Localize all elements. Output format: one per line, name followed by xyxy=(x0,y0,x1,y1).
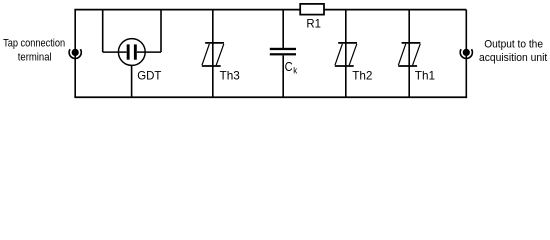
svg-text:Output to the: Output to the xyxy=(484,38,543,50)
resistor R1 xyxy=(300,4,324,15)
node tap terminal xyxy=(69,49,81,59)
wire GDT left vertical xyxy=(102,10,104,53)
svg-text:C: C xyxy=(285,59,293,74)
svg-text:Th3: Th3 xyxy=(220,68,241,82)
thyristor Th3 xyxy=(202,10,224,98)
thyristor Th2 xyxy=(335,10,357,98)
svg-text:Th2: Th2 xyxy=(352,68,373,82)
svg-text:Tap connection: Tap connection xyxy=(3,38,65,50)
GDT tube xyxy=(118,39,145,66)
wire GDT horizontal xyxy=(103,51,161,53)
svg-text:R1: R1 xyxy=(306,17,321,31)
svg-text:Th1: Th1 xyxy=(415,68,436,82)
wire GDT right vertical xyxy=(160,10,162,53)
svg-text:GDT: GDT xyxy=(137,68,161,82)
wire left branch xyxy=(74,10,76,98)
svg-text:terminal: terminal xyxy=(18,51,52,63)
capacitor Ck xyxy=(270,10,296,98)
wire right branch xyxy=(465,10,467,98)
wire GDT stem xyxy=(131,65,133,97)
svg-text:acquisition unit: acquisition unit xyxy=(479,52,548,64)
node output terminal xyxy=(460,49,472,59)
svg-text:k: k xyxy=(293,65,297,75)
wire top rail xyxy=(74,9,466,11)
wire bottom rail xyxy=(74,96,467,98)
thyristor Th1 xyxy=(398,10,420,98)
